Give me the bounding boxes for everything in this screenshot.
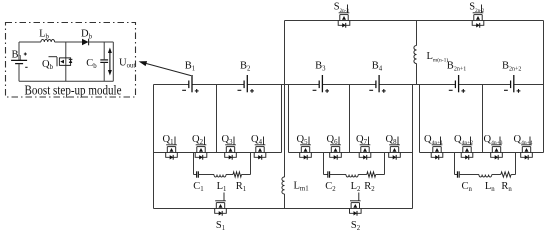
transistor Q4n+1 [431,137,443,160]
resistor Rn [501,172,511,177]
battery B2n+2 [511,75,514,92]
inductor Ln [479,175,492,178]
wire coil to resistor segment [358,174,367,176]
Uout voltage arrow [108,48,112,76]
transistor Q1 [166,137,178,160]
diode Db [82,39,89,46]
wire LC left segment [194,174,197,176]
wire module n left edge [419,85,421,153]
wire LC branch left drop [193,153,195,175]
wire LC left segment [455,174,458,176]
wire boost top mid segment [55,41,82,43]
wire module n mid tap [482,85,484,153]
wire module1 switch row [154,152,282,154]
polarity marks B2n+1 [449,89,465,93]
transistor Q7 [359,137,371,160]
wire boost bottom [19,80,113,82]
boost step-up module dash-dot border [6,23,136,98]
wire boost Qb drain-source line [65,42,67,81]
transistor Q4 [254,137,266,160]
transistor Q6 [330,137,342,160]
wire module1 mid tap [216,85,218,153]
wire module2 switch row [289,152,413,154]
wire Lm(n-1) bottom lead [416,64,418,85]
transistor S2n-2 [472,5,484,28]
wire LC branch left drop [454,153,456,175]
polarity marks B3 [313,89,329,93]
transistor Qb [49,57,73,66]
transistor Q8 [389,137,401,160]
polarity marks B1 [182,89,198,93]
wire coil to resistor segment [492,174,501,176]
wire module2 mid tap [349,85,351,153]
wire LC branch right drop [250,153,252,175]
transistor Q4n+2 [461,137,473,160]
wire resistor to drop segment [511,174,515,176]
battery B4 [376,75,379,92]
wire Lm(n-1) top lead [416,21,418,46]
wire boost right edge [112,42,114,81]
transistor S2 [350,193,362,216]
wire cap to coil segment [330,174,346,176]
polarity marks B4 [369,89,385,93]
wire boost B1 bottom lead [18,64,20,82]
battery B1 [189,75,192,92]
inductor L1 [214,175,226,178]
wire module2 right edge [412,85,414,209]
svg-text:Boost step-up module: Boost step-up module [25,83,122,98]
capacitor C2 [328,171,330,177]
wire resistor to drop segment [242,174,251,176]
wire right edge (module n right side) [543,21,545,153]
polarity marks B2n+2 [504,89,520,93]
wire coil to resistor segment [226,174,233,176]
inductor Lm(n-1) [414,46,417,64]
polarity marks boost B1 [24,53,28,68]
transistor Q4n+4 [521,137,533,160]
wire bottom rail [154,208,413,210]
battery B1 (boost module) [11,60,27,63]
wire module1 right edge [281,85,283,153]
wire cap to coil segment [198,174,214,176]
annotation arrow pointing to boost module [146,63,191,75]
wire LC branch right drop [515,153,517,175]
transistor S2n-3 [338,5,350,28]
transistor Q5 [300,137,312,160]
wire boost Cb bottom lead [103,62,105,81]
wire module1 left edge [153,85,155,209]
wire LC left segment [324,174,328,176]
wire boost B1 top lead [18,42,20,60]
wire Lm1 bottom lead [284,194,286,209]
wire resistor to drop segment [376,174,385,176]
battery B3 [319,75,322,92]
resistor R2 [367,172,376,177]
polarity marks B2 [238,89,254,93]
wire top rail left drop to module1/2 junction [284,21,286,85]
inductor Lm1 [282,177,285,194]
inductor Lb coil [41,40,55,42]
wire module2 left edge [288,85,290,153]
resistor R1 [233,172,242,177]
wire module n switch row [420,152,544,154]
transistor Q2 [195,137,207,160]
capacitor Cb [100,60,108,63]
battery string wire [154,84,189,86]
wire boost top-left segment [19,41,41,43]
transistor S1 [215,193,227,216]
wire cap to coil segment [459,174,479,176]
wire Lm1 top lead [284,85,286,178]
capacitor C1 [197,171,199,177]
battery B2n+1 [455,75,458,92]
battery B2 [244,75,247,92]
transistor Q3 [225,137,237,160]
wire LC branch left drop [323,153,325,175]
inductor L2 [346,175,358,178]
wire top rail [285,20,544,22]
wire boost top right segment [89,41,114,43]
transistor Q4n+3 [491,137,503,160]
wire boost Cb top lead [103,42,105,59]
capacitor Cn [457,171,459,177]
wire LC branch right drop [384,153,386,175]
